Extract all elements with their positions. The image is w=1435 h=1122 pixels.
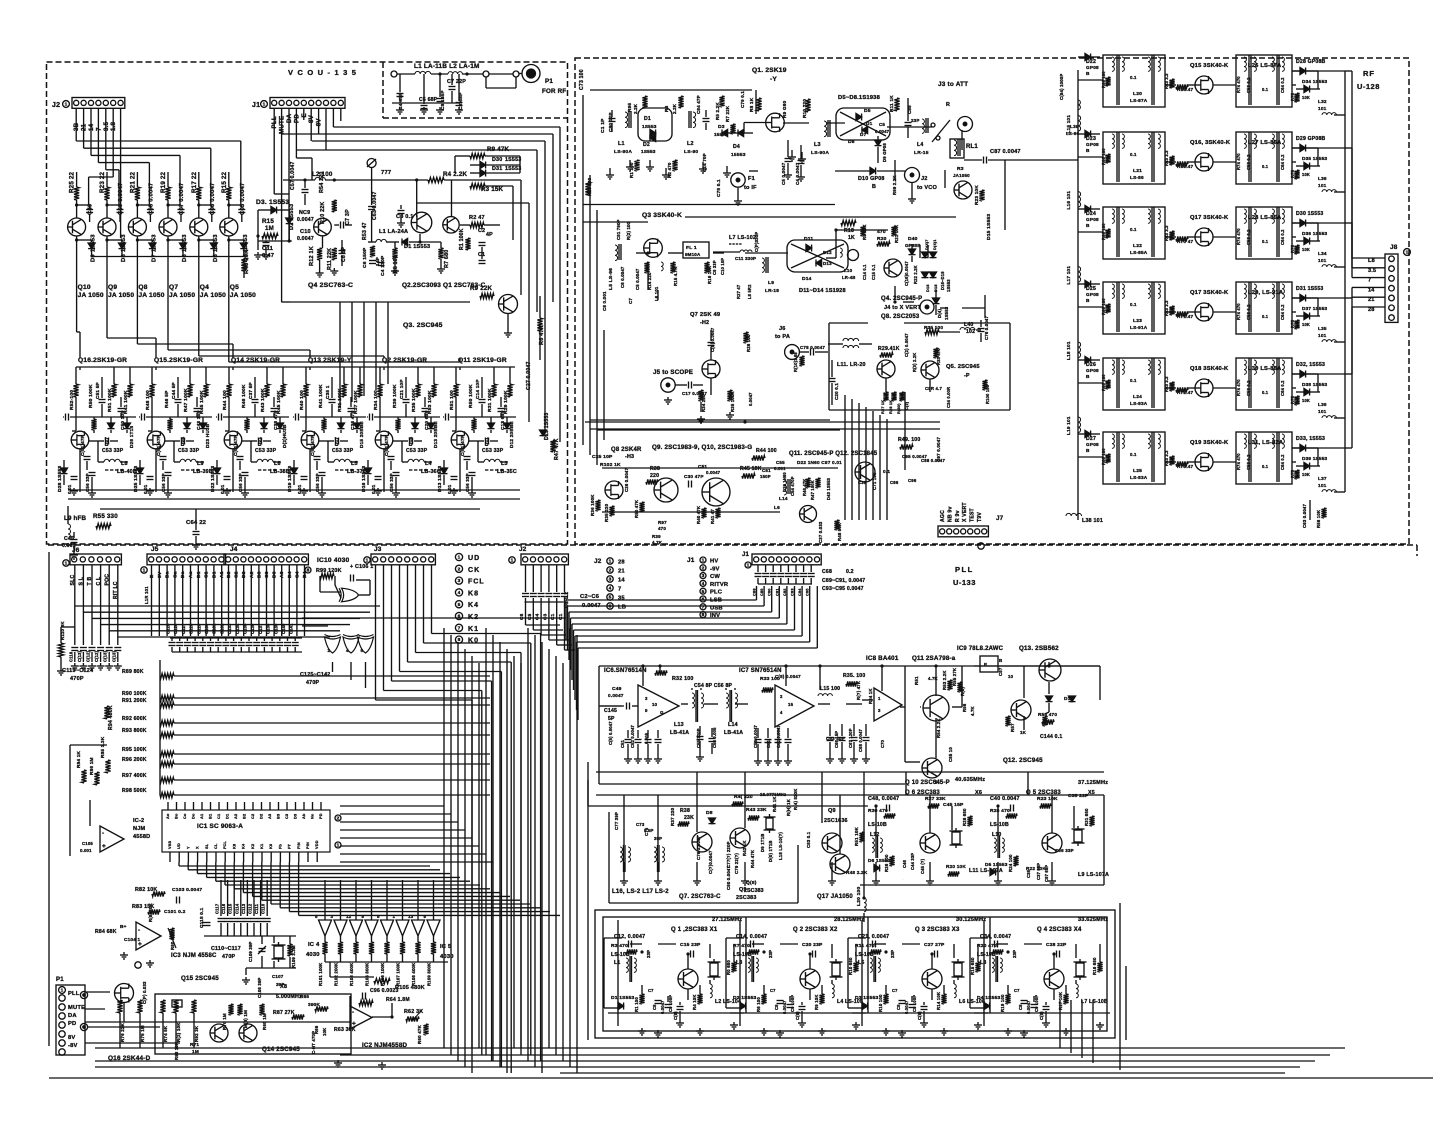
svg-text:23K: 23K bbox=[684, 815, 694, 821]
svg-text:9: 9 bbox=[424, 914, 427, 919]
svg-text:13: 13 bbox=[408, 914, 414, 919]
svg-text:C101 0.2: C101 0.2 bbox=[164, 909, 186, 915]
svg-text:1: 1 bbox=[747, 563, 750, 569]
svg-text:T9V: T9V bbox=[977, 512, 983, 522]
svg-text:C5 0.0047: C5 0.0047 bbox=[635, 268, 640, 290]
svg-text:FL 1: FL 1 bbox=[686, 245, 697, 251]
svg-text:0.2: 0.2 bbox=[846, 569, 854, 575]
svg-text:RL1: RL1 bbox=[966, 144, 978, 150]
svg-text:D35 1S553: D35 1S553 bbox=[1302, 156, 1328, 161]
svg-text:C53 0.2: C53 0.2 bbox=[1246, 154, 1251, 170]
svg-text:R19 22: R19 22 bbox=[160, 171, 167, 193]
svg-text:R46 5P: R46 5P bbox=[164, 390, 170, 408]
svg-text:C73 100: C73 100 bbox=[579, 69, 585, 90]
svg-text:R17 22: R17 22 bbox=[191, 171, 198, 193]
svg-text:23P: 23P bbox=[646, 950, 651, 958]
svg-text:1: 1 bbox=[61, 988, 64, 994]
svg-text:CK: CK bbox=[468, 567, 480, 574]
svg-text:C2~C6: C2~C6 bbox=[580, 594, 599, 600]
svg-text:C(51)47P: C(51)47P bbox=[384, 435, 389, 456]
svg-text:L32: L32 bbox=[1318, 99, 1327, 104]
svg-text:R41 47: R41 47 bbox=[710, 509, 715, 524]
svg-text:U-128: U-128 bbox=[1357, 82, 1380, 91]
svg-text:23P: 23P bbox=[911, 118, 920, 123]
svg-text:Q12. 2SC945: Q12. 2SC945 bbox=[1003, 757, 1043, 764]
svg-text:9: 9 bbox=[362, 914, 365, 919]
svg-text:R56 10K: R56 10K bbox=[1316, 509, 1321, 528]
svg-text:LS-86: LS-86 bbox=[1130, 175, 1144, 180]
svg-text:D3: D3 bbox=[294, 814, 298, 819]
svg-text:R109 800K: R109 800K bbox=[427, 962, 432, 986]
svg-text:LR-15: LR-15 bbox=[914, 150, 929, 156]
svg-text:R74 470: R74 470 bbox=[1236, 153, 1241, 170]
svg-text:K1: K1 bbox=[260, 843, 264, 849]
svg-text:D11: D11 bbox=[804, 236, 813, 242]
svg-text:1: 1 bbox=[337, 843, 340, 849]
svg-text:C53 33P: C53 33P bbox=[482, 448, 504, 454]
svg-text:Q15 2SC945: Q15 2SC945 bbox=[181, 975, 219, 982]
svg-text:VDD: VDD bbox=[315, 840, 319, 849]
svg-text:R46 100K: R46 100K bbox=[241, 384, 247, 408]
svg-text:C11: C11 bbox=[262, 246, 274, 252]
svg-text:U-133: U-133 bbox=[953, 578, 976, 587]
svg-text:C(84) 1000P: C(84) 1000P bbox=[1059, 74, 1064, 100]
svg-text:R93 10K: R93 10K bbox=[174, 1041, 179, 1060]
svg-text:D1: D1 bbox=[644, 116, 651, 122]
svg-text:470P: 470P bbox=[222, 954, 236, 960]
svg-text:28: 28 bbox=[1368, 307, 1375, 313]
svg-text:L9: L9 bbox=[768, 280, 774, 286]
svg-text:R47 100K: R47 100K bbox=[183, 388, 189, 412]
svg-text:R102 1K: R102 1K bbox=[600, 462, 621, 468]
svg-text:J2: J2 bbox=[52, 102, 60, 109]
svg-text:Q16.2SK19-GR: Q16.2SK19-GR bbox=[78, 357, 127, 364]
svg-text:C(9): C(9) bbox=[795, 1011, 800, 1020]
svg-text:R(2) 10K: R(2) 10K bbox=[176, 1022, 181, 1042]
svg-text:0.1: 0.1 bbox=[1130, 152, 1137, 157]
svg-text:R10 680: R10 680 bbox=[848, 957, 853, 975]
svg-text:Q17 3SK40-K: Q17 3SK40-K bbox=[1190, 215, 1229, 221]
svg-text:Q19 3SK40-K: Q19 3SK40-K bbox=[1190, 440, 1229, 446]
svg-text:M(8) 1M: M(8) 1M bbox=[243, 1010, 248, 1028]
svg-text:1M: 1M bbox=[265, 225, 274, 232]
svg-text:C128: C128 bbox=[189, 623, 194, 634]
svg-text:C(9): C(9) bbox=[1039, 1011, 1044, 1020]
svg-text:L20: L20 bbox=[1133, 91, 1142, 97]
svg-text:R22 2.2K: R22 2.2K bbox=[913, 265, 918, 284]
svg-text:3: 3 bbox=[645, 696, 648, 701]
svg-text:Q7 2SK 49: Q7 2SK 49 bbox=[690, 312, 720, 318]
svg-text:R103 400K: R103 400K bbox=[349, 962, 354, 986]
svg-text:0.1: 0.1 bbox=[1130, 75, 1137, 80]
svg-text:C63 0.0047: C63 0.0047 bbox=[372, 191, 378, 220]
svg-text:R31 100K: R31 100K bbox=[487, 388, 493, 412]
svg-text:10K: 10K bbox=[1302, 172, 1310, 177]
svg-text:C(51)47P: C(51)47P bbox=[156, 435, 161, 456]
svg-text:-: - bbox=[102, 830, 104, 837]
svg-text:L34: L34 bbox=[1318, 251, 1327, 256]
svg-text:5: 5 bbox=[315, 914, 318, 919]
svg-text:10K: 10K bbox=[1302, 322, 1310, 327]
svg-text:C73: C73 bbox=[636, 822, 645, 827]
svg-text:D4: D4 bbox=[733, 144, 740, 150]
svg-text:R92 3K: R92 3K bbox=[194, 1025, 199, 1042]
svg-text:J1: J1 bbox=[742, 552, 750, 558]
svg-text:D13: D13 bbox=[823, 261, 832, 266]
svg-text:Fb: Fb bbox=[278, 843, 282, 849]
svg-text:C116: C116 bbox=[221, 903, 226, 914]
svg-text:L1: L1 bbox=[618, 141, 625, 147]
svg-text:Q4. 2SC945-P: Q4. 2SC945-P bbox=[881, 296, 922, 302]
svg-text:1: 1 bbox=[143, 568, 146, 574]
svg-text:C89~C91, 0.0047: C89~C91, 0.0047 bbox=[822, 578, 865, 584]
svg-text:C1: C1 bbox=[217, 813, 221, 819]
svg-text:C85 10: C85 10 bbox=[948, 747, 953, 762]
svg-text:C127: C127 bbox=[181, 623, 186, 634]
svg-text:+: + bbox=[138, 941, 142, 948]
svg-text:R3 15K: R3 15K bbox=[481, 186, 504, 193]
svg-text:R11 470: R11 470 bbox=[855, 943, 875, 949]
svg-text:R50 100K: R50 100K bbox=[88, 384, 94, 408]
svg-text:R27 33K: R27 33K bbox=[925, 796, 946, 802]
svg-text:R35. 100: R35. 100 bbox=[843, 673, 865, 679]
svg-text:R31 100K: R31 100K bbox=[337, 388, 343, 412]
svg-text:10: 10 bbox=[652, 702, 658, 707]
svg-text:R70 1M: R70 1M bbox=[222, 1013, 227, 1030]
svg-text:C53 0.2: C53 0.2 bbox=[1246, 380, 1251, 396]
svg-text:D12 20BBE: D12 20BBE bbox=[509, 421, 514, 448]
svg-text:101: 101 bbox=[1318, 258, 1327, 263]
svg-text:L3: L3 bbox=[814, 142, 821, 148]
svg-text:R41 100K: R41 100K bbox=[318, 384, 324, 408]
svg-text:C53 0.2: C53 0.2 bbox=[1246, 229, 1251, 245]
svg-text:K4: K4 bbox=[242, 843, 246, 849]
svg-text:C75: C75 bbox=[644, 827, 649, 836]
svg-text:28.125MHz: 28.125MHz bbox=[834, 917, 864, 923]
svg-text:J8: J8 bbox=[1390, 244, 1398, 251]
svg-text:9M10A: 9M10A bbox=[685, 252, 701, 257]
svg-text:L8: L8 bbox=[121, 461, 128, 467]
svg-text:IC 5: IC 5 bbox=[440, 944, 452, 950]
svg-text:C37 0.033: C37 0.033 bbox=[818, 521, 823, 543]
svg-text:D11~D14 1S1928: D11~D14 1S1928 bbox=[799, 288, 846, 294]
svg-text:C(2) 0.0047: C(2) 0.0047 bbox=[904, 333, 909, 357]
svg-text:C10: C10 bbox=[300, 229, 311, 235]
svg-text:0.01: 0.01 bbox=[143, 484, 148, 494]
svg-text:R47 100K: R47 100K bbox=[810, 480, 815, 500]
svg-text:R39: R39 bbox=[652, 534, 661, 539]
svg-text:C6: C6 bbox=[519, 613, 524, 620]
svg-text:101: 101 bbox=[1318, 333, 1327, 338]
svg-text:R40 100: R40 100 bbox=[299, 390, 305, 410]
svg-text:J1: J1 bbox=[252, 102, 260, 109]
svg-text:Q10: Q10 bbox=[78, 284, 91, 291]
svg-text:R71: R71 bbox=[190, 1042, 199, 1047]
svg-text:R14 10K: R14 10K bbox=[936, 991, 941, 1010]
svg-text:Q13 2SK19-Y: Q13 2SK19-Y bbox=[308, 357, 352, 364]
svg-text:1: 1 bbox=[609, 559, 612, 565]
svg-text:28: 28 bbox=[618, 560, 625, 566]
svg-text:0.0047: 0.0047 bbox=[782, 1000, 787, 1014]
svg-text:L16, LS-2 L17 LS-2: L16, LS-2 L17 LS-2 bbox=[612, 889, 669, 895]
svg-text:Co: Co bbox=[183, 813, 187, 819]
svg-text:2: 2 bbox=[780, 694, 783, 699]
svg-text:Q15 3SK40-K: Q15 3SK40-K bbox=[1190, 63, 1229, 69]
svg-text:R106 800K: R106 800K bbox=[365, 962, 370, 986]
svg-text:Q9: Q9 bbox=[828, 808, 836, 814]
svg-text:RF: RF bbox=[1363, 69, 1375, 78]
svg-text:LS-87A: LS-87A bbox=[1130, 98, 1148, 103]
svg-text:K2: K2 bbox=[251, 844, 255, 849]
svg-text:4.7K: 4.7K bbox=[928, 676, 939, 681]
svg-text:R63 3.3: R63 3.3 bbox=[1164, 450, 1169, 466]
svg-text:L25: L25 bbox=[1133, 468, 1142, 474]
svg-text:Q 10 2SC645-P: Q 10 2SC645-P bbox=[905, 780, 950, 786]
svg-text:NB 9v: NB 9v bbox=[947, 506, 953, 522]
svg-text:-H2: -H2 bbox=[700, 320, 709, 326]
svg-text:10K: 10K bbox=[322, 1027, 327, 1036]
svg-text:L1 LA-11B L2 LA-1M: L1 LA-11B L2 LA-1M bbox=[414, 63, 480, 70]
svg-text:R37 220: R37 220 bbox=[670, 807, 675, 826]
svg-text:C125: C125 bbox=[166, 623, 171, 634]
svg-text:R105 480K: R105 480K bbox=[395, 985, 425, 991]
svg-text:C57 0.0047: C57 0.0047 bbox=[290, 161, 296, 190]
svg-text:R4 10K: R4 10K bbox=[692, 994, 697, 1010]
svg-text:C95 0.0047: C95 0.0047 bbox=[902, 454, 927, 459]
svg-text:8: 8 bbox=[307, 568, 310, 574]
svg-text:L38 101: L38 101 bbox=[1082, 518, 1103, 524]
svg-text:L3: L3 bbox=[501, 461, 508, 467]
svg-text:5P: 5P bbox=[608, 716, 615, 722]
svg-text:27.125MHz: 27.125MHz bbox=[712, 917, 742, 923]
svg-text:K8: K8 bbox=[468, 590, 479, 597]
svg-text:R34 1K: R34 1K bbox=[868, 688, 873, 704]
svg-text:L6: L6 bbox=[274, 461, 281, 467]
svg-text:C3: C3 bbox=[542, 613, 547, 620]
svg-text:C56 33P: C56 33P bbox=[85, 473, 90, 492]
svg-text:0.1: 0.1 bbox=[1262, 390, 1269, 395]
svg-text:D10 GP08: D10 GP08 bbox=[858, 176, 885, 182]
svg-text:R23 22: R23 22 bbox=[99, 171, 106, 193]
svg-text:R9 47K: R9 47K bbox=[487, 146, 510, 153]
svg-text:3: 3 bbox=[878, 708, 881, 713]
svg-text:C38: C38 bbox=[1026, 869, 1031, 878]
svg-text:K4: K4 bbox=[468, 602, 479, 609]
svg-text:R3: R3 bbox=[664, 105, 669, 112]
svg-text:R74 5K: R74 5K bbox=[163, 1025, 168, 1042]
svg-text:PD: PD bbox=[68, 1021, 76, 1027]
svg-text:R30 470: R30 470 bbox=[868, 808, 888, 814]
svg-text:D36 1S553: D36 1S553 bbox=[1302, 231, 1328, 236]
svg-text:C107: C107 bbox=[272, 974, 284, 979]
svg-text:R15 680: R15 680 bbox=[970, 957, 975, 975]
svg-text:LR-18: LR-18 bbox=[765, 288, 779, 293]
svg-text:Q14 2SC945: Q14 2SC945 bbox=[262, 1046, 300, 1053]
svg-text:R15 22: R15 22 bbox=[221, 171, 228, 193]
svg-text:150P: 150P bbox=[760, 474, 771, 479]
svg-text:R0 680: R0 680 bbox=[726, 960, 731, 975]
svg-text:0.01: 0.01 bbox=[67, 484, 72, 494]
svg-text:R7 680: R7 680 bbox=[444, 250, 450, 268]
svg-text:L18 LS-10(?): L18 LS-10(?) bbox=[778, 832, 783, 860]
svg-text:0.1: 0.1 bbox=[1262, 87, 1269, 92]
svg-text:R23 10K: R23 10K bbox=[974, 185, 979, 205]
svg-text:2SC383: 2SC383 bbox=[744, 888, 764, 894]
svg-text:C7: C7 bbox=[628, 298, 633, 304]
svg-text:C129: C129 bbox=[196, 623, 201, 634]
svg-text:D6 1S553: D6 1S553 bbox=[868, 858, 891, 863]
svg-text:R51: R51 bbox=[914, 676, 919, 685]
svg-text:C134: C134 bbox=[235, 623, 240, 634]
svg-text:14: 14 bbox=[1368, 287, 1375, 293]
svg-text:C30 47P: C30 47P bbox=[684, 474, 704, 479]
svg-text:R50 47K: R50 47K bbox=[634, 499, 639, 518]
svg-text:J4 to X VERT: J4 to X VERT bbox=[884, 305, 921, 311]
svg-text:R75 1M: R75 1M bbox=[140, 1025, 145, 1042]
svg-text:R(8) 10K: R(8) 10K bbox=[148, 902, 153, 922]
svg-text:LS-90A: LS-90A bbox=[614, 149, 632, 155]
svg-text:D31: D31 bbox=[492, 166, 502, 172]
svg-text:LS-10B: LS-10B bbox=[611, 952, 630, 958]
svg-text:C77(?) 220P: C77(?) 220P bbox=[726, 841, 731, 868]
svg-text:FOR RF: FOR RF bbox=[542, 88, 566, 95]
svg-text:33.625MHz: 33.625MHz bbox=[1078, 917, 1108, 923]
svg-text:UD: UD bbox=[177, 843, 181, 849]
svg-text:CL: CL bbox=[214, 843, 218, 849]
svg-text:0.0047: 0.0047 bbox=[297, 217, 314, 223]
svg-text:R3 470: R3 470 bbox=[611, 943, 628, 949]
svg-text:R41 1K: R41 1K bbox=[772, 796, 777, 812]
svg-text:LS-90: LS-90 bbox=[684, 149, 698, 155]
svg-text:Ab: Ab bbox=[302, 813, 306, 819]
svg-text:0.1: 0.1 bbox=[1262, 164, 1269, 169]
svg-text:C1: C1 bbox=[550, 613, 555, 620]
svg-text:0.1: 0.1 bbox=[1130, 378, 1137, 383]
svg-text:D12: D12 bbox=[823, 250, 832, 255]
svg-text:L13: L13 bbox=[674, 722, 684, 728]
svg-text:101: 101 bbox=[1318, 106, 1327, 111]
svg-text:D43 1S553: D43 1S553 bbox=[826, 477, 831, 500]
svg-text:C5 68P: C5 68P bbox=[419, 97, 438, 103]
svg-text:J4: J4 bbox=[230, 546, 238, 553]
svg-text:X: X bbox=[196, 846, 200, 849]
svg-text:D28 GP08B: D28 GP08B bbox=[1296, 59, 1326, 65]
svg-text:R84 1K: R84 1K bbox=[76, 750, 81, 768]
svg-text:-8V: -8V bbox=[68, 1043, 78, 1049]
svg-text:0.1: 0.1 bbox=[1262, 314, 1269, 319]
svg-text:0.0047: 0.0047 bbox=[297, 236, 314, 242]
svg-text:C9 100P: C9 100P bbox=[1034, 995, 1039, 1012]
svg-text:MUTE: MUTE bbox=[68, 1005, 85, 1011]
svg-text:101: 101 bbox=[1318, 409, 1327, 414]
svg-text:PLL: PLL bbox=[955, 565, 974, 574]
svg-text:LS-10B: LS-10B bbox=[733, 952, 752, 958]
svg-text:C64 0.2: C64 0.2 bbox=[1280, 380, 1285, 396]
svg-text:D(2)HU3B: D(2)HU3B bbox=[282, 424, 287, 448]
svg-text:Q4 2SC763-C: Q4 2SC763-C bbox=[308, 282, 353, 289]
svg-text:39P: 39P bbox=[276, 982, 285, 987]
svg-text:C(51)47P: C(51)47P bbox=[233, 435, 238, 456]
svg-text:Do: Do bbox=[192, 813, 196, 819]
svg-text:HV: HV bbox=[710, 559, 718, 565]
svg-text:C7: C7 bbox=[648, 988, 654, 993]
svg-text:C58 0.005: C58 0.005 bbox=[712, 727, 717, 748]
svg-text:C37 5P: C37 5P bbox=[248, 382, 253, 399]
svg-text:C53 0.2: C53 0.2 bbox=[1246, 304, 1251, 320]
svg-text:14P: 14P bbox=[375, 257, 380, 266]
svg-text:C7 22P: C7 22P bbox=[447, 79, 466, 85]
svg-text:PIN: PIN bbox=[306, 842, 310, 849]
svg-text:C1: C1 bbox=[558, 613, 563, 620]
svg-text:D7: D7 bbox=[860, 132, 867, 137]
svg-text:R90 100K: R90 100K bbox=[122, 691, 147, 697]
svg-text:1S553: 1S553 bbox=[505, 157, 521, 163]
svg-text:C56 33P: C56 33P bbox=[465, 473, 470, 492]
svg-text:D38 1S553: D38 1S553 bbox=[1302, 382, 1328, 387]
svg-text:L5 LS-96: L5 LS-96 bbox=[608, 268, 614, 290]
svg-text:Bo: Bo bbox=[175, 813, 179, 819]
svg-text:L22: L22 bbox=[1133, 243, 1142, 249]
svg-text:5: 5 bbox=[702, 589, 705, 595]
svg-text:Q17 JA1050: Q17 JA1050 bbox=[817, 894, 853, 900]
svg-text:R75: R75 bbox=[1290, 319, 1295, 328]
svg-text:C53 33P: C53 33P bbox=[332, 448, 354, 454]
svg-text:C87 0.0047: C87 0.0047 bbox=[990, 149, 1021, 155]
svg-text:R44 100: R44 100 bbox=[222, 390, 228, 410]
svg-text:P1: P1 bbox=[545, 78, 553, 85]
svg-text:101: 101 bbox=[1318, 483, 1327, 488]
svg-text:J2: J2 bbox=[921, 176, 928, 182]
svg-text:C136: C136 bbox=[250, 623, 255, 634]
svg-text:D31 1S553: D31 1S553 bbox=[1296, 286, 1323, 292]
svg-text:C53 33P: C53 33P bbox=[406, 448, 428, 454]
svg-text:1: 1 bbox=[511, 558, 514, 564]
svg-text:C15 23P: C15 23P bbox=[680, 942, 701, 948]
svg-text:C14 10P: C14 10P bbox=[475, 379, 480, 399]
svg-text:A2: A2 bbox=[234, 814, 238, 819]
svg-text:10K: 10K bbox=[1302, 95, 1310, 100]
svg-text:3: 3 bbox=[458, 578, 461, 584]
svg-text:C108 39P: C108 39P bbox=[257, 977, 262, 998]
svg-text:C12, 0.0047: C12, 0.0047 bbox=[614, 934, 645, 940]
svg-text:L23: L23 bbox=[1133, 318, 1142, 324]
svg-text:L5: L5 bbox=[858, 960, 864, 966]
svg-text:R45 18K: R45 18K bbox=[740, 466, 762, 472]
svg-text:D5: D5 bbox=[864, 108, 871, 114]
svg-text:0.0047: 0.0047 bbox=[706, 470, 721, 475]
svg-text:FCL: FCL bbox=[223, 840, 227, 849]
svg-text:GP08: GP08 bbox=[1086, 292, 1099, 297]
svg-text:4030: 4030 bbox=[306, 952, 320, 958]
svg-text:C64 0.2: C64 0.2 bbox=[1280, 154, 1285, 170]
svg-text:R(30): R(30) bbox=[897, 403, 901, 414]
svg-text:C21, 0.0047: C21, 0.0047 bbox=[858, 934, 889, 940]
svg-text:Q 1 ,2SC383 X1: Q 1 ,2SC383 X1 bbox=[671, 927, 718, 933]
svg-text:D4 1S553: D4 1S553 bbox=[977, 995, 1000, 1001]
svg-text:390K: 390K bbox=[308, 1002, 320, 1007]
svg-text:C87: C87 bbox=[998, 667, 1003, 676]
svg-text:L14: L14 bbox=[728, 722, 738, 728]
svg-text:R20 470: R20 470 bbox=[977, 943, 997, 949]
svg-text:14: 14 bbox=[618, 578, 625, 584]
svg-text:IC3 NJM 4558C: IC3 NJM 4558C bbox=[171, 953, 217, 959]
svg-text:R26 100: R26 100 bbox=[884, 854, 889, 872]
svg-text:-: - bbox=[138, 927, 140, 934]
svg-text:R63 3.3: R63 3.3 bbox=[1164, 376, 1169, 392]
svg-text:B: B bbox=[1086, 71, 1090, 76]
svg-text:0.0047: 0.0047 bbox=[748, 392, 753, 406]
svg-text:C40 0.0047: C40 0.0047 bbox=[990, 796, 1020, 802]
